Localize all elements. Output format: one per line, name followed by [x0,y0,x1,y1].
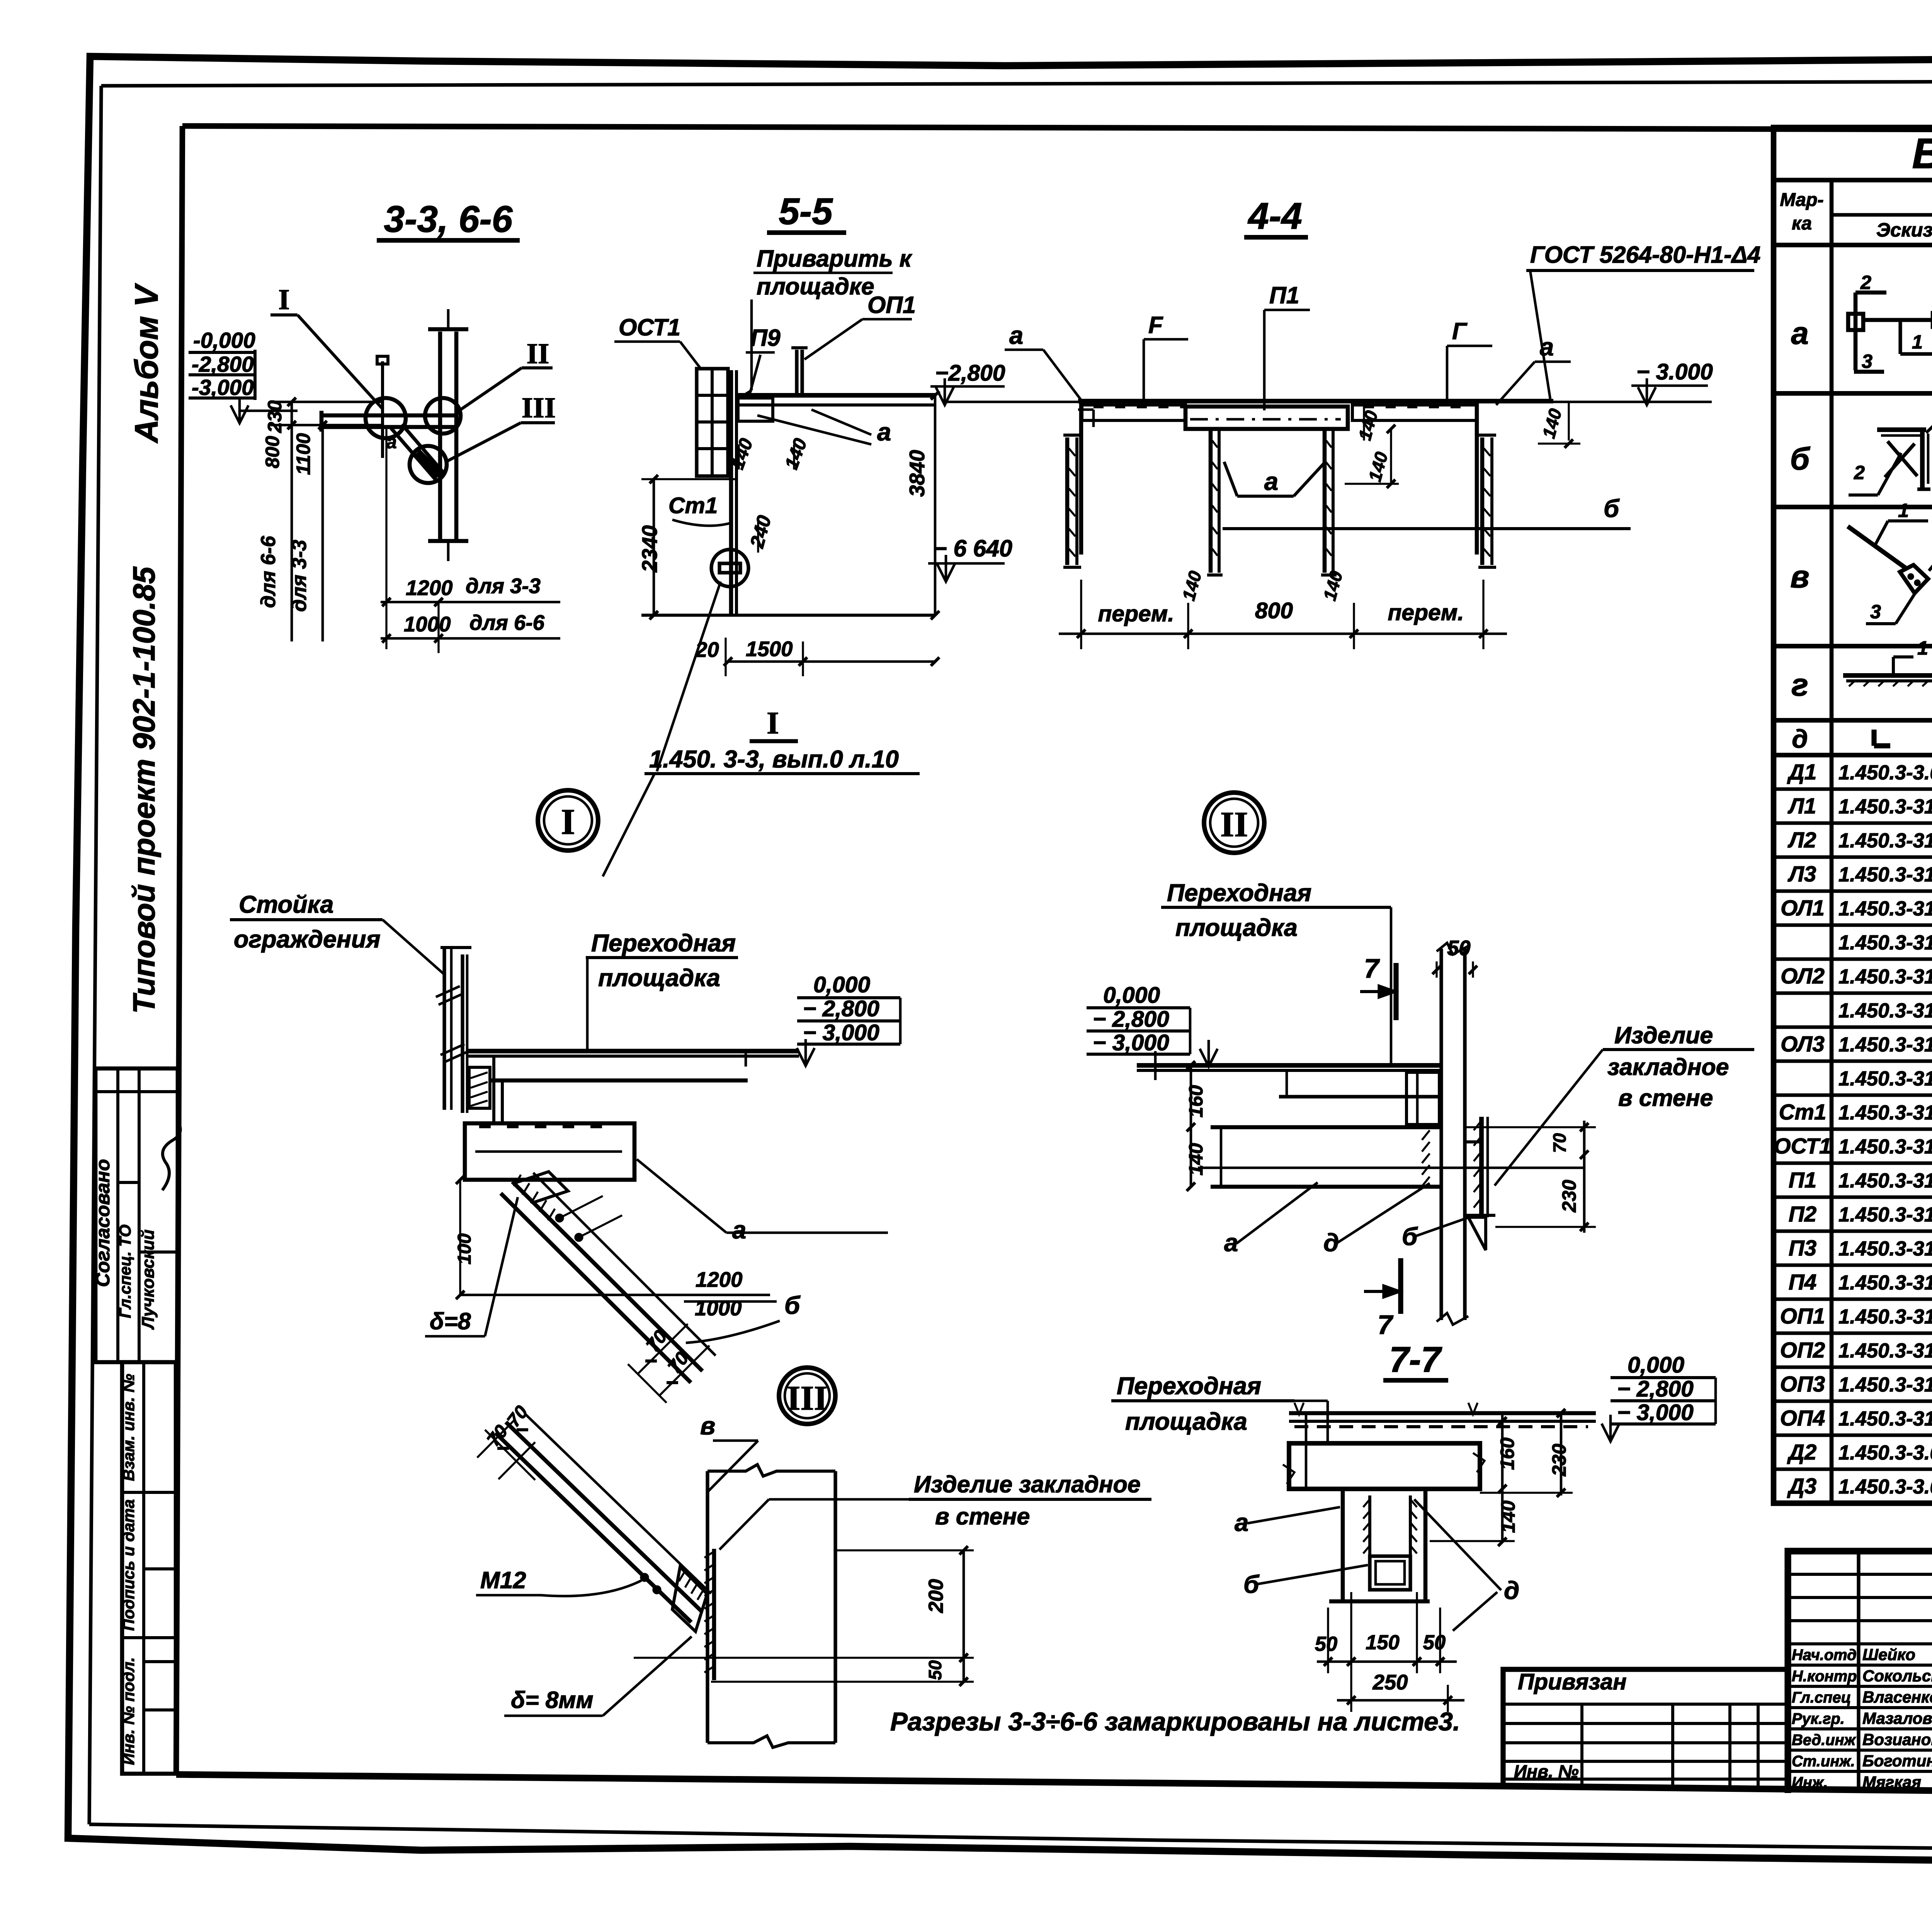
sketch row в [1848,499,1932,624]
sketch row г [1843,637,1932,704]
left wall line (view 4-4) [1078,401,1094,555]
svg-text:Привязан: Привязан [1518,1669,1627,1694]
note Изделие закладное в стене (detail II) [1495,1022,1754,1186]
column I-beam (view 3-3) [428,309,468,561]
svg-text:4-4: 4-4 [1247,196,1302,237]
label а right (view 4-4) [1496,333,1571,405]
svg-text:1.450.3-31 3.1. 0.1.0: 1.450.3-31 3.1. 0.1.0 [1838,1101,1932,1124]
svg-text:1000: 1000 [695,1296,742,1320]
stair post Ст1 (view 5-5) [731,370,736,615]
svg-text:в стене: в стене [935,1503,1030,1529]
svg-text:3840: 3840 [905,450,929,497]
svg-text:800: 800 [1255,598,1293,623]
svg-text:закладное: закладное [1607,1054,1729,1080]
svg-text:Инв. №: Инв. № [1514,1761,1579,1781]
svg-text:0,000: 0,000 [813,972,870,997]
svg-text:П1: П1 [1269,282,1299,308]
svg-text:1500: 1500 [746,637,793,661]
label а left (view 4-4) [1005,321,1082,401]
label а with leaders (view 5-5) [757,410,891,446]
svg-text:М12: М12 [480,1567,526,1593]
dims 160 140 left (detail II) [1185,1061,1207,1191]
svg-text:200: 200 [925,1579,947,1613]
svg-text:7-7: 7-7 [1389,1339,1442,1380]
svg-text:− 2,800: − 2,800 [1093,1007,1169,1032]
svg-text:в стене: в стене [1618,1085,1713,1111]
svg-text:Взам. инв. №: Взам. инв. № [119,1374,138,1481]
svg-text:1100: 1100 [292,433,314,475]
svg-text:1.450.3-31 5.1.0: 1.450.3-31 5.1.0 [1838,1373,1932,1396]
table Ведомость элементов outer box [1774,128,1932,1503]
svg-text:− 3,000: − 3,000 [1093,1030,1169,1055]
label в (detail III) [700,1412,758,1492]
svg-text:1: 1 [1917,637,1928,659]
svg-text:2: 2 [1854,461,1865,483]
svg-text:230: 230 [1558,1180,1580,1213]
ladder ОСТ1 (view 5-5) [697,369,728,476]
svg-text:50: 50 [1315,1633,1337,1655]
svg-text:Стойка: Стойка [239,891,333,918]
svg-text:-0,000: -0,000 [193,328,255,353]
svg-text:160: 160 [1496,1438,1518,1470]
central beam П1 (view 4-4) [1185,407,1348,429]
svg-text:Эскиз: Эскиз [1876,219,1932,241]
svg-text:Г: Г [1452,318,1468,344]
svg-text:Мягкая: Мягкая [1862,1773,1921,1791]
platform deck (view 4-4) [1078,401,1553,420]
elevation marks 0.000 -2.800 -3.000 (view 3-3) [189,328,298,423]
svg-text:1200: 1200 [696,1268,742,1291]
svg-text:1.450.3-31 2.1.1: 1.450.3-31 2.1.1 [1838,1271,1932,1294]
svg-text:площадка: площадка [1125,1408,1247,1435]
svg-text:б: б [1604,494,1620,522]
dim 3840 (view 5-5) [905,391,939,619]
svg-text:ка: ка [1792,213,1812,234]
svg-text:800: 800 [261,436,283,468]
svg-text:для 6-6: для 6-6 [257,536,280,608]
svg-text:0,000: 0,000 [1103,983,1160,1008]
label П1 (view 4-4) [1264,282,1310,410]
svg-text:50: 50 [1423,1631,1446,1654]
svg-text:Приварить к: Приварить к [757,245,913,272]
svg-text:Л3: Л3 [1787,862,1816,886]
svg-text:Инв. № подл.: Инв. № подл. [119,1657,138,1765]
beam (detail II) [1198,1127,1584,1187]
view title 4-4 [1244,196,1308,237]
table title Ведомость элементов [1774,130,1932,180]
svg-text:ОСТ1: ОСТ1 [619,314,680,340]
svg-text:Боготинская: Боготинская [1862,1752,1932,1770]
svg-text:а: а [1235,1508,1248,1536]
support bracket (view 7-7) [1329,1489,1430,1601]
label Г (view 4-4) [1447,318,1492,402]
svg-text:ГОСТ 5264-80-Н1-Δ4: ГОСТ 5264-80-Н1-Δ4 [1530,242,1760,268]
svg-text:1.450.3-31 1.1.1.: 1.450.3-31 1.1.1. [1838,829,1932,852]
view title 3-3, 6-6 [377,199,520,240]
dim line 1200 1000 б (detail I) [460,1268,801,1343]
svg-text:Л2: Л2 [1787,828,1816,852]
svg-text:а: а [877,418,891,446]
bottom dims 50 150 50 250 (view 7-7) [1315,1592,1464,1712]
svg-text:в: в [700,1412,715,1440]
svg-text:1.450.3-31 5.1.0: 1.450.3-31 5.1.0 [1838,1305,1932,1328]
detail circle II [1204,793,1264,853]
svg-text:2340: 2340 [638,525,662,572]
svg-text:0,000: 0,000 [1628,1352,1684,1378]
svg-text:150: 150 [1366,1631,1400,1654]
note Переходная площадка (view 7-7) [1111,1373,1328,1444]
svg-text:а: а [1009,321,1023,349]
svg-text:Переходная: Переходная [1167,880,1311,907]
svg-text:ОЛ3: ОЛ3 [1781,1032,1825,1056]
svg-text:для 3-3: для 3-3 [288,540,311,612]
svg-text:1.450.3-31 1.1.1.: 1.450.3-31 1.1.1. [1838,863,1932,886]
note Приварить к площадке (view 5-5) [736,245,913,400]
svg-text:-2,800: -2,800 [192,352,254,377]
elevation -2.800 (view 4-4) [930,361,1078,405]
svg-text:а: а [1540,333,1554,361]
svg-text:в: в [1790,559,1809,594]
svg-text:Мазалова: Мазалова [1862,1709,1932,1727]
svg-text:230: 230 [264,400,286,433]
svg-text:Гл.спец: Гл.спец [1792,1689,1851,1706]
svg-text:1.450.3-31 6.1.0.1.0: 1.450.3-31 6.1.0.1.0 [1838,1135,1932,1158]
svg-text:1.450.3-31 4.1.2: 1.450.3-31 4.1.2 [1838,1033,1932,1056]
svg-text:1000: 1000 [404,612,451,636]
svg-text:− 3,000: − 3,000 [803,1020,879,1045]
svg-text:П9: П9 [750,325,781,351]
svg-text:δ=8: δ=8 [430,1308,471,1334]
svg-text:Согласовано: Согласовано [92,1159,114,1287]
svg-text:П1: П1 [1789,1168,1816,1193]
table body vertical grid lines [1832,245,1932,1503]
svg-text:1.450.3-31 2.1.1: 1.450.3-31 2.1.1 [1838,1203,1932,1226]
svg-text:1.450.3-31 4.1.1.: 1.450.3-31 4.1.1. [1838,965,1932,988]
svg-text:Подпись и дата: Подпись и дата [119,1499,138,1631]
table data row lines [1774,789,1932,1469]
svg-text:II: II [1220,805,1248,844]
wall (detail II) [1437,943,1468,1325]
svg-text:1.450.3-31 2.1.1.: 1.450.3-31 2.1.1. [1838,1237,1932,1260]
svg-text:1.450.3-31 4.1.1.: 1.450.3-31 4.1.1. [1838,897,1932,920]
label б with line (view 4-4) [1223,494,1631,529]
stringer (detail III) [495,1414,711,1631]
dim 140 140 (view 5-5) [727,436,811,472]
svg-text:1.450.3-31 2.1.1: 1.450.3-31 2.1.1 [1838,1169,1932,1192]
note Переходная площадка (detail II) [1161,880,1391,1065]
svg-text:Д1: Д1 [1787,760,1816,784]
svg-text:1.450.3-31 5.1.0: 1.450.3-31 5.1.0 [1838,1407,1932,1430]
label а (detail I) [637,1159,888,1244]
title block outer box [1788,1551,1932,1793]
svg-text:70: 70 [1549,1133,1570,1153]
svg-text:Изделие: Изделие [1614,1022,1713,1048]
dim 2340 (view 5-5) [638,475,736,619]
diagonal member (view 3-3) [391,424,444,480]
view title 7-7 [1383,1339,1448,1380]
svg-text:ОП3: ОП3 [1780,1372,1825,1397]
svg-text:Ведомость элементов: Ведомость элементов [1912,130,1932,177]
stair stringer (detail I) [501,1172,716,1383]
svg-text:3: 3 [1862,350,1872,372]
svg-text:Гл.спец. ТО: Гл.спец. ТО [116,1225,134,1318]
note Переходная площадка (detail I) [586,930,738,1050]
dims 70 230 right (detail II) [1465,1121,1596,1233]
svg-text:2: 2 [1860,271,1871,293]
svg-text:Возианов: Возианов [1862,1730,1932,1749]
svg-text:Нач.отд: Нач.отд [1792,1647,1857,1664]
svg-text:3-3, 6-6: 3-3, 6-6 [384,199,513,240]
platform deck (detail II) [1137,1051,1441,1125]
svg-text:Д3: Д3 [1787,1474,1816,1499]
title block names [1792,1645,1932,1791]
svg-text:1: 1 [1898,499,1909,521]
svg-text:Изделие закладное: Изделие закладное [914,1471,1141,1497]
left channel column (view 4-4) [1063,435,1081,567]
svg-text:ОСТ1: ОСТ1 [1774,1134,1831,1159]
svg-text:-3,000: -3,000 [192,376,254,400]
svg-text:δ= 8мм: δ= 8мм [511,1687,594,1713]
svg-text:Переходная: Переходная [1117,1373,1261,1400]
bottom dimension line (view 4-4) [1059,569,1507,649]
svg-text:III: III [787,1379,827,1417]
svg-text:а: а [732,1216,746,1244]
dim 50 (detail II) [1432,936,1477,978]
section mark 7 upper (detail II) [1360,953,1396,1020]
title block signature columns [1788,1551,1932,1793]
detail circle 1 (view 3-3) [366,398,406,438]
label ОСТ1 (view 5-5) [614,314,700,368]
embedded bracket in wall (detail II) [1465,1117,1495,1250]
svg-text:3: 3 [1870,601,1881,623]
detail circle 2 (view 3-3) [425,398,461,434]
platform slab (view 7-7) [1283,1403,1596,1489]
svg-text:250: 250 [1372,1671,1408,1694]
label б=8 (detail I) [425,1197,518,1336]
dim 140 right (view 4-4) [1538,402,1580,448]
dimensions left of view 3-3 [257,398,383,641]
svg-text:140: 140 [1185,1143,1207,1176]
svg-text:Сокольская: Сокольская [1862,1667,1932,1685]
callout label II (view 3-3) [461,338,553,410]
labels а д б (detail II) [1224,1182,1471,1257]
right wall line (view 4-4) [1475,401,1479,555]
dim 70 70 (detail III) [477,1402,535,1480]
svg-text:ОЛ2: ОЛ2 [1781,964,1825,988]
dims 140 middle (view 4-4) [1345,405,1399,488]
svg-text:Ст.инж.: Ст.инж. [1792,1753,1855,1770]
label Ст1 (view 5-5) [668,493,733,526]
binding box Привязан [1503,1669,1788,1787]
svg-text:ограждения: ограждения [234,926,381,953]
elevation marks (detail I) [797,972,900,1066]
svg-text:1.450.3-3.0 08: 1.450.3-3.0 08 [1838,1441,1932,1464]
svg-text:I: I [278,284,289,316]
callout label III (view 3-3) [445,392,556,462]
label М12 (detail III) [476,1567,641,1596]
svg-text:П2: П2 [1789,1202,1816,1227]
anchor bolt (view 3-3) [377,356,397,458]
svg-text:Вед.инж: Вед.инж [1792,1732,1857,1749]
elevation marks (view 7-7) [1602,1352,1716,1441]
detail circle I [538,790,598,851]
label F (view 4-4) [1144,312,1188,402]
svg-text:III: III [522,392,556,424]
svg-text:а: а [1264,467,1278,495]
platform deck (detail I) [467,1051,799,1123]
dim 100 (detail I) [454,1176,475,1299]
svg-text:Инж.: Инж. [1792,1774,1828,1791]
horizontal member (view 3-3) [321,411,458,432]
svg-text:а: а [1791,316,1809,351]
svg-text:б: б [784,1291,801,1319]
approval box Согласовано [92,1068,180,1362]
note Изделие закладное в стене (detail III) [719,1471,1151,1550]
svg-text:5-5: 5-5 [779,191,833,232]
svg-text:Д2: Д2 [1787,1440,1816,1465]
elevation -6 640 (view 4-4) [928,535,1012,582]
section mark 7 lower (detail II) [1364,1258,1401,1340]
svg-text:1: 1 [1912,331,1923,353]
base detail circle (view 5-5) [711,550,748,587]
svg-text:1.450.3-31 1.1.: 1.450.3-31 1.1. [1838,795,1932,818]
weld note ГОСТ 5264-80-Н1-Д4 [1526,242,1760,399]
gusset callout а (view 4-4) [1224,462,1325,496]
svg-text:ОП1: ОП1 [867,292,916,318]
svg-text:Шейко: Шейко [1862,1645,1915,1664]
left post (view 4-4) [1207,429,1223,575]
sketch row д [1874,730,1890,746]
connection plate (detail I) [469,1067,490,1108]
label б=8мм (detail III) [504,1637,692,1716]
callout label I (view 3-3) [270,284,383,409]
dims 20 1500 (view 5-5) [695,637,939,676]
svg-text:Разрезы 3-3÷6-6 замаркированы: Разрезы 3-3÷6-6 замаркированы на листе3. [890,1707,1460,1736]
svg-text:перем.: перем. [1388,600,1464,625]
svg-text:д: д [1792,725,1808,754]
note Стойка ограждения (detail I) [230,891,444,974]
svg-text:100: 100 [454,1233,475,1265]
svg-text:для 3-3: для 3-3 [466,574,541,598]
table data rows text [1774,760,1932,1499]
svg-text:1.450.3-3.0 08: 1.450.3-3.0 08 [1838,1475,1932,1498]
right channel column (view 4-4) [1478,435,1496,567]
svg-text:д: д [1504,1576,1519,1604]
svg-text:Л1: Л1 [1787,794,1816,818]
svg-text:7: 7 [1378,1310,1394,1340]
svg-text:площадке: площадке [757,273,874,299]
svg-text:Лучковский: Лучковский [139,1230,158,1330]
svg-text:Типовой проект 902-1-100.85: Типовой проект 902-1-100.85 [127,566,161,1014]
elevation marks (detail II) [1087,983,1218,1067]
svg-text:F: F [1148,312,1163,338]
svg-text:1.450.3-31 4.1.1.: 1.450.3-31 4.1.1. [1838,999,1932,1022]
svg-text:Рук.гр.: Рук.гр. [1792,1710,1845,1727]
svg-text:Переходная: Переходная [591,930,736,957]
svg-text:ОП1: ОП1 [1780,1304,1825,1329]
dim 70 70 (detail I) [628,1324,709,1403]
svg-text:1.450. 3-3, вып.0 л.10: 1.450. 3-3, вып.0 л.10 [649,746,899,773]
svg-text:50: 50 [925,1660,945,1680]
svg-text:Ст1: Ст1 [1779,1100,1827,1125]
svg-text:Альбом V: Альбом V [128,283,165,444]
svg-text:7: 7 [1364,953,1380,983]
labels а б д (view 7-7) [1235,1499,1519,1631]
dims 200 50 (detail III) [634,1546,974,1686]
svg-text:160: 160 [1185,1085,1207,1118]
table header captions [1780,183,1932,247]
svg-text:перем.: перем. [1098,601,1174,626]
bottom dimensions view 3-3 [381,425,560,653]
svg-text:230: 230 [1548,1444,1570,1477]
label П9 (view 5-5) [746,325,781,397]
svg-text:П3: П3 [1789,1236,1816,1261]
svg-text:Мар-: Мар- [1780,189,1823,210]
table header grid [1774,180,1932,245]
svg-text:− 2,800: − 2,800 [803,996,879,1021]
svg-text:1200: 1200 [406,576,452,600]
detail reference I with text (view 5-5) [603,582,920,876]
svg-text:Власенко: Власенко [1862,1688,1932,1706]
svg-text:Н.контр: Н.контр [1792,1668,1857,1685]
floor line (view 5-5) [641,614,935,617]
svg-text:б: б [1790,441,1811,476]
wall with embedded item (detail III) [704,1465,835,1747]
sketch row б [1849,394,1932,495]
elevation -3.000 (view 4-4) [1553,359,1713,405]
svg-text:для 6-6: для 6-6 [469,611,545,635]
svg-text:I: I [767,705,779,740]
detail circle III [779,1368,835,1424]
right post (view 4-4) [1321,429,1337,575]
sketch row а [1848,271,1932,372]
svg-text:1.450.3-31 4.1.1.: 1.450.3-31 4.1.1. [1838,931,1932,954]
svg-text:ОЛ1: ОЛ1 [1781,896,1825,920]
svg-text:ОП4: ОП4 [1780,1406,1825,1431]
dims 160 230 140 (view 7-7) [1430,1409,1573,1546]
label ОП1 (view 5-5) [804,292,916,359]
svg-text:− 3,000: − 3,000 [1617,1400,1694,1425]
detail circle 3 (view 3-3) [410,446,447,483]
svg-text:II: II [527,338,549,370]
view title 5-5 [767,191,846,233]
table group row separators [1774,393,1932,755]
dim 240 (view 5-5) [745,513,775,553]
svg-text:Ст1: Ст1 [668,493,718,518]
svg-text:площадка: площадка [598,965,720,992]
guard post (detail I) [436,948,471,1113]
svg-text:1.450.3-31 4.1.2: 1.450.3-31 4.1.2 [1838,1067,1932,1090]
platform (view 5-5) [736,348,935,421]
svg-text:площадка: площадка [1175,914,1298,941]
svg-text:− 2,800: − 2,800 [1617,1376,1694,1402]
svg-text:г: г [1791,667,1808,703]
svg-text:1.450.3-3.0.08: 1.450.3-3.0.08 [1838,761,1932,784]
svg-text:П4: П4 [1789,1270,1816,1295]
beam box (detail I) [465,1123,634,1180]
left margin strip Взам.инв / Подпись и дата / Инв.N подл. [119,1362,176,1774]
svg-text:1.450.3-31 5.1.0: 1.450.3-31 5.1.0 [1838,1339,1932,1362]
svg-text:ОП2: ОП2 [1780,1338,1825,1363]
svg-text:140: 140 [1497,1500,1519,1533]
svg-text:I: I [561,802,575,842]
